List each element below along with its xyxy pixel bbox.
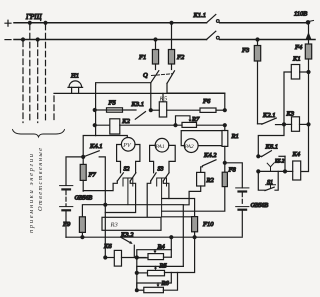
brace consumers group <box>13 130 65 138</box>
svg-text:S2: S2 <box>124 167 130 173</box>
label R5 <box>159 263 168 270</box>
label K4.1 <box>89 143 102 150</box>
wire S2 actuator line to F9 <box>82 205 183 217</box>
wire S3 left pole to R3 <box>147 181 151 217</box>
label R3 <box>110 222 119 229</box>
svg-text:S3: S3 <box>158 167 164 173</box>
contact chevron button on mid branch <box>267 163 274 171</box>
label S3 <box>158 167 164 173</box>
meter PA2 <box>184 139 199 153</box>
wiper R5 loop with arrow <box>137 266 184 273</box>
wire battery tap left <box>66 157 83 186</box>
label Q <box>143 72 148 79</box>
node dot K6.1 pivot <box>257 155 260 158</box>
svg-text:R2: R2 <box>206 177 215 184</box>
wire rail down to K4 <box>301 124 309 171</box>
switch S3 blade right <box>163 173 169 181</box>
contact K3.2 blade with arrow <box>121 237 133 244</box>
wire K2 line left part <box>95 124 110 126</box>
label K3.2 <box>120 231 134 238</box>
label K5 <box>159 96 168 103</box>
node dot K1 rail <box>307 71 310 74</box>
battery GB2 dashed middle <box>241 193 243 206</box>
label R2 <box>206 177 215 184</box>
wire Q pole1 drop to K3.1 <box>150 83 152 110</box>
label S2 <box>124 167 130 173</box>
switch S2 actuator bracket <box>123 178 133 205</box>
wire R2 bottom jog <box>183 186 200 266</box>
wire rail F4 down <box>308 72 310 124</box>
label F2 <box>176 54 185 61</box>
node dot minus bus d1 <box>22 38 25 41</box>
wire K6 to R4 <box>137 257 146 259</box>
node dot F3 on minus bus <box>256 38 259 41</box>
switch Q pole 2 blade <box>167 71 175 84</box>
relay coil K4 <box>287 161 301 180</box>
fuse F1 <box>152 41 158 70</box>
fuse F5 <box>95 108 136 112</box>
wire battery negative bus bottom <box>66 236 242 238</box>
svg-text:F1: F1 <box>138 54 146 61</box>
node dot left F5 branch <box>93 109 96 112</box>
wire Q pole2 right run zigzag to x224 <box>167 83 225 110</box>
fuse F4 <box>305 44 311 72</box>
battery GB2 cell1 <box>236 188 249 192</box>
svg-text:К3.2: К3.2 <box>120 231 134 238</box>
svg-text:F4: F4 <box>294 44 303 51</box>
wire left drop jog to K4.1 <box>83 136 95 157</box>
wire K1 right to rail <box>300 71 309 73</box>
label F8 <box>228 167 237 174</box>
resistor R2 <box>197 172 205 186</box>
wire + bus <box>14 22 308 24</box>
label K3 <box>286 111 295 118</box>
resistor R6 <box>137 287 164 292</box>
contact K4.2 blade <box>201 160 216 173</box>
battery GB1 dashed middle <box>65 191 67 207</box>
relay coil K3 <box>286 117 309 132</box>
svg-text:PV: PV <box>122 143 132 149</box>
battery GB1 cell1 <box>60 186 73 190</box>
svg-text:F7: F7 <box>88 172 97 179</box>
label F5 <box>108 100 117 107</box>
svg-text:GВ56В: GВ56В <box>75 196 93 202</box>
svg-text:Ответственные: Ответственные <box>37 148 44 211</box>
label K6 <box>103 243 112 250</box>
fuse F2 <box>168 24 174 69</box>
contactor K1.1 pole on minus bus <box>207 31 220 39</box>
node dot R7 right rail <box>223 124 226 127</box>
fuse F8 <box>222 163 227 187</box>
contactor K1.1 label <box>193 12 206 19</box>
svg-text:РА2: РА2 <box>184 144 194 150</box>
fuse F10 <box>192 217 198 238</box>
node dot N2 <box>284 170 287 173</box>
wire battery GB1 negative down <box>65 210 67 237</box>
minus terminal <box>5 39 11 41</box>
node dot left K2 branch <box>93 124 96 127</box>
svg-text:К5.2: К5.2 <box>274 160 285 165</box>
battery GB2 cell2 <box>236 207 249 210</box>
fuse F6 <box>200 108 225 112</box>
node dot F10 on battery bus <box>193 236 196 239</box>
svg-text:GВ56В: GВ56В <box>251 203 269 209</box>
switch S2 blade right <box>130 173 136 181</box>
node dot plus bus d4 <box>44 21 47 24</box>
svg-text:F8: F8 <box>228 167 237 174</box>
wire - bus <box>14 39 315 41</box>
relay coil K2 <box>110 119 120 134</box>
wire K5 right to F6 <box>167 109 200 111</box>
switch S3 blade left <box>151 173 156 181</box>
fuse F3 <box>254 41 260 124</box>
node dot minus bus d3 <box>36 38 39 41</box>
svg-text:Q: Q <box>143 72 148 79</box>
node dot F2 on plus bus <box>170 21 173 24</box>
wire dashed feeder 4 <box>45 24 47 122</box>
wire left main drop from Q <box>95 85 97 136</box>
wire K3.1 to K5 left <box>151 109 160 111</box>
svg-text:F6: F6 <box>202 98 211 105</box>
label R7 <box>191 116 200 123</box>
wire dashed feeder 2 <box>29 24 31 122</box>
wire K1 left down to node N1 <box>284 72 291 124</box>
svg-text:К6: К6 <box>103 243 112 250</box>
label K4.2 <box>203 152 217 159</box>
button S1 actuator <box>266 185 276 188</box>
wire K6.1 right down to node N2 <box>284 156 286 171</box>
wire left tie vertical <box>136 258 138 290</box>
node dot R3 top vertical <box>104 203 107 206</box>
switch S2 blade left <box>117 173 123 181</box>
svg-text:R3: R3 <box>110 222 119 229</box>
label H1 <box>70 73 79 80</box>
label K2 <box>121 118 130 125</box>
meter PV <box>121 138 135 152</box>
node dot R6 left <box>135 289 138 292</box>
fuse F7 <box>80 158 86 191</box>
svg-text:F2: F2 <box>176 54 185 61</box>
node dot K4.1 pivot <box>82 155 85 158</box>
svg-text:приемники энергии: приемники энергии <box>28 154 35 233</box>
node dot plus bus d2 <box>28 21 31 24</box>
label F10 <box>202 221 214 228</box>
label F9 <box>62 221 71 228</box>
wiper R4 loop with arrow <box>137 250 172 258</box>
label S1 <box>267 180 273 186</box>
label F6 <box>202 98 211 105</box>
node dot F1 on minus bus <box>154 38 157 41</box>
node dot R5 left <box>135 271 138 274</box>
svg-text:F9: F9 <box>62 221 71 228</box>
node dot K4.2 right <box>223 161 226 164</box>
label R4 <box>157 244 166 251</box>
meter PA1 <box>155 138 169 152</box>
wire node N1 jog down left <box>258 124 284 155</box>
node dot K3.1 <box>149 109 152 112</box>
svg-text:К2.1: К2.1 <box>262 112 275 119</box>
label F3 <box>241 47 250 54</box>
wire right battery top <box>225 163 243 188</box>
wire K4.1 fixed side down <box>99 157 105 218</box>
wire K5 top stub <box>162 93 164 101</box>
svg-text:Н1: Н1 <box>70 73 79 80</box>
resistor R7 with wiper <box>176 116 225 128</box>
label K1 <box>292 56 301 63</box>
resistor R4 <box>137 254 164 260</box>
svg-text:R1: R1 <box>231 133 239 140</box>
node dot R4 on battery bus <box>170 236 173 239</box>
switch Q mechanical link dashed <box>152 74 173 76</box>
label F1 <box>138 54 146 61</box>
label K4 <box>292 151 301 158</box>
contactor K1.1 pole on plus bus <box>207 15 220 23</box>
label F4 <box>294 44 303 51</box>
node dot K3 rail <box>307 123 310 126</box>
bell H1 <box>68 81 83 94</box>
relay coil K5 <box>159 102 166 117</box>
wire mid branch <box>258 170 285 172</box>
switch S3 actuator bracket <box>157 178 167 217</box>
contact S1 blade <box>265 187 274 190</box>
junction artifact triangle at minus bus <box>306 32 312 40</box>
svg-text:К4: К4 <box>292 151 301 158</box>
contact K2.1 <box>258 118 285 125</box>
wire S3 right pole down <box>163 181 169 199</box>
node dot F6 right <box>223 109 226 112</box>
wire R6 right up <box>163 273 177 291</box>
contact K4.1 blade <box>83 151 99 157</box>
svg-text:К2: К2 <box>121 118 130 125</box>
node dot K6 right <box>135 256 138 259</box>
battery GB1 cell2 <box>60 207 73 211</box>
wire dashed feeder 3 <box>37 41 39 123</box>
wire F10 bottom to R5 right <box>165 237 195 272</box>
wire R4 right terminal up to battery bus <box>164 237 172 257</box>
svg-text:К3.1: К3.1 <box>131 101 144 108</box>
label GB56V left <box>75 196 93 202</box>
label Ответственные приемники энергии (rotated) <box>28 148 44 233</box>
switch S3 enclosure <box>150 145 176 172</box>
wiper R6 loop with arrow <box>137 273 172 291</box>
wire bell line long run <box>54 92 225 94</box>
svg-text:К4.1: К4.1 <box>89 143 102 150</box>
svg-text:110В: 110В <box>294 11 307 18</box>
label K3.1 <box>131 101 144 108</box>
label R1 <box>231 133 239 140</box>
svg-text:F10: F10 <box>202 221 214 228</box>
wire PV top tap <box>96 136 128 140</box>
node dot plus bus right end <box>306 21 313 25</box>
wire S2 right pole down <box>105 181 135 213</box>
node dot K6 left <box>104 256 107 259</box>
wire dashed feeder 1 <box>22 41 24 123</box>
wire from plus bus end down to F4 <box>308 22 310 44</box>
wire F8 bottom run left <box>162 187 225 212</box>
wire battery GB2 negative down <box>241 210 243 236</box>
shunt box around PA2 <box>181 131 225 146</box>
svg-text:К4.2: К4.2 <box>203 152 217 159</box>
node dot N1 <box>283 123 286 126</box>
relay coil K6 <box>105 250 137 266</box>
svg-text:К6.1: К6.1 <box>265 144 278 151</box>
wire dashed feeder 5 <box>53 96 55 123</box>
wire through R3 vertical <box>104 217 106 258</box>
label R6 <box>161 280 170 287</box>
plus terminal <box>5 20 11 26</box>
label F7 <box>88 172 97 179</box>
wire K3.2 contact stub <box>133 245 135 257</box>
contact K6.1 <box>258 151 285 157</box>
label K6.1 <box>265 144 278 151</box>
switch S2 enclosure <box>117 145 140 173</box>
label K2.1 <box>262 112 275 119</box>
label GB56V right <box>251 203 269 209</box>
resistor R3 <box>102 217 161 230</box>
wire N2 to K4 <box>285 170 287 172</box>
svg-text:К1.1: К1.1 <box>193 12 206 19</box>
switch Q pole 1 blade <box>151 71 159 83</box>
svg-text:РА1: РА1 <box>155 144 165 150</box>
wire K2 line to R7 <box>120 124 176 126</box>
svg-text:ГРЩ: ГРЩ <box>25 13 42 21</box>
wire S1 lower branch <box>258 171 278 190</box>
label K5.2 (small) <box>274 160 285 165</box>
resistor R1 <box>222 127 228 163</box>
node dot F9 bottom <box>81 236 84 239</box>
svg-text:К1: К1 <box>292 56 301 63</box>
svg-text:F3: F3 <box>241 47 250 54</box>
node dot left mid branch <box>257 170 260 173</box>
wire S2 left pole to F7 line <box>83 181 117 191</box>
relay coil K1 <box>291 65 299 80</box>
wire S3 actuator to F10 line <box>162 216 195 218</box>
resistor R5 <box>137 270 165 275</box>
svg-text:F5: F5 <box>108 100 117 107</box>
wire Q pole1 left run <box>96 83 151 85</box>
label ГРЩ <box>25 13 42 21</box>
label 110V <box>294 11 307 18</box>
wire S3 right to F10 top <box>162 199 195 217</box>
node dot R7 left <box>174 124 177 127</box>
contact K3.1 blade <box>135 112 145 120</box>
fuse F9 <box>79 217 85 237</box>
